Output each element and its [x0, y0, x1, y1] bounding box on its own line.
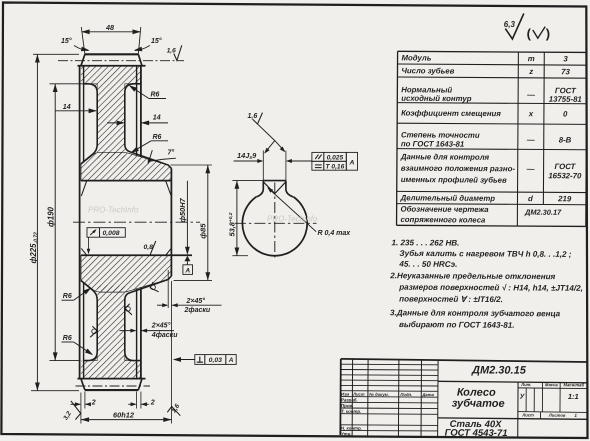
right face line inner lower: [136, 289, 138, 379]
svg-text:ф190: ф190: [46, 206, 55, 227]
svg-text:№ докум.: № докум.: [369, 392, 389, 397]
left face line: [79, 66, 81, 379]
svg-text:зубчатое: зубчатое: [452, 398, 505, 410]
svg-text:14Js9: 14Js9: [237, 151, 257, 161]
svg-text:Обозначение чертежа: Обозначение чертежа: [401, 205, 490, 215]
svg-text:8-В: 8-В: [559, 135, 572, 144]
web recess whiteout bottom-left: [80, 280, 98, 361]
svg-text:2×45°: 2×45°: [186, 297, 206, 305]
svg-text:А: А: [184, 268, 190, 275]
svg-text:Листов: Листов: [548, 413, 566, 418]
svg-text:48: 48: [105, 23, 114, 32]
svg-text:Коэффициент смещения: Коэффициент смещения: [401, 109, 501, 119]
svg-text:2фаски: 2фаски: [184, 307, 211, 314]
svg-text:сопряженного колеса: сопряженного колеса: [400, 215, 486, 225]
svg-text:Пров.: Пров.: [341, 403, 353, 408]
svg-text:ф50Н7: ф50Н7: [178, 197, 187, 222]
left face chamfer line lower: [83, 283, 85, 379]
svg-text:именных профилей зубьев: именных профилей зубьев: [401, 175, 507, 185]
svg-text:Н. контр.: Н. контр.: [341, 426, 362, 431]
svg-text:PRO-TechInfo: PRO-TechInfo: [267, 215, 318, 224]
svg-text:Число зубьев: Число зубьев: [401, 66, 454, 75]
svg-text:ф85: ф85: [198, 223, 207, 239]
svg-text:Модуль: Модуль: [401, 53, 431, 62]
left face chamfer line upper: [83, 66, 85, 162]
svg-text:размеров поверхностей √ : Н14,: размеров поверхностей √ : Н14, h14, ±JТ1…: [398, 283, 583, 293]
svg-text:6,3: 6,3: [504, 20, 516, 29]
dim 53,8: [232, 180, 263, 182]
hub right face: [170, 168, 172, 276]
svg-text:ф225-0,72: ф225-0,72: [29, 232, 40, 264]
svg-text:поверхностей ∀ : ±IТ16/2.: поверхностей ∀ : ±IТ16/2.: [399, 294, 503, 304]
roughness 3,2 rotated left: [71, 401, 81, 420]
svg-text:2: 2: [150, 400, 155, 407]
svg-text:1,6: 1,6: [171, 403, 182, 415]
svg-text:—: —: [526, 90, 535, 99]
svg-text:Лист: Лист: [521, 413, 534, 418]
svg-text:2: 2: [91, 400, 96, 407]
svg-text:Подп.: Подп.: [400, 392, 412, 397]
chamfer extension slants above teeth: [81, 27, 85, 54]
title block outer: [341, 359, 588, 362]
gear section: hatched web top: [97, 84, 125, 159]
svg-text:Изм: Изм: [341, 392, 350, 397]
roughness 1,6 rotated right: [167, 407, 180, 416]
runout tolerance frame 0,008: [87, 228, 125, 238]
svg-text:7°: 7°: [168, 149, 175, 157]
web recess whiteout top-right: [125, 84, 142, 155]
svg-text:исходный контур: исходный контур: [401, 94, 472, 103]
svg-text:R6: R6: [63, 335, 72, 342]
dim dia225: [33, 53, 79, 55]
svg-text:—: —: [526, 135, 535, 144]
right face line outer lower: [140, 287, 142, 378]
svg-text:выбирают по ГОСТ 1643-81.: выбирают по ГОСТ 1643-81.: [399, 320, 515, 330]
svg-text:ДМ2.30.17: ДМ2.30.17: [524, 208, 562, 217]
svg-text:ГОСТ 4543-71: ГОСТ 4543-71: [445, 428, 508, 439]
svg-text:15°: 15°: [61, 37, 72, 45]
gear axis centerline: [73, 221, 200, 223]
svg-text:2×45°: 2×45°: [151, 322, 171, 330]
svg-text:Масса: Масса: [545, 382, 559, 387]
web recess whiteout top-left: [80, 84, 98, 165]
svg-text:Масштаб: Масштаб: [564, 382, 585, 387]
svg-text:Лит.: Лит.: [520, 382, 531, 387]
svg-text:45. . . 50 НRСэ.: 45. . . 50 НRСэ.: [398, 260, 457, 269]
web recess whiteout bottom-right: [125, 289, 142, 360]
svg-text:Т. контр.: Т. контр.: [341, 409, 361, 414]
svg-text:Утв.: Утв.: [341, 431, 352, 436]
svg-text:73: 73: [561, 67, 570, 76]
svg-text:R6: R6: [63, 293, 72, 300]
gear section: hatched hub bottom: [81, 255, 171, 292]
pitch line top (dash-dot): [58, 60, 184, 62]
recess top contour left: [81, 84, 97, 164]
bore top edge (keyway bottom): [81, 180, 171, 182]
recess top contour right + hub top slant: [125, 84, 172, 169]
svg-text:по ГОСТ 1643-81: по ГОСТ 1643-81: [401, 139, 464, 148]
svg-text:R 0,4 max: R 0,4 max: [318, 230, 352, 237]
teeth band top outline: [85, 53, 138, 55]
hub chamfer edge ext line: [167, 270, 169, 308]
svg-text:2.Неуказанные предельные откло: 2.Неуказанные предельные отклонения: [389, 271, 555, 281]
svg-text:Делительный диаметр: Делительный диаметр: [400, 193, 496, 203]
svg-text:Разраб.: Разраб.: [341, 397, 358, 402]
svg-text:4фаски: 4фаски: [151, 332, 178, 339]
svg-text:x: x: [528, 109, 534, 118]
detail centerlines: [235, 222, 317, 224]
svg-text:3.Данные для контроля зубчатог: 3.Данные для контроля зубчатого венца: [390, 308, 561, 318]
dim 48 top: [81, 31, 140, 33]
svg-text:0,025: 0,025: [327, 155, 344, 162]
recess bottom contour left: [81, 281, 97, 361]
perpendicularity frame 0,03 A: [195, 355, 236, 365]
gear section: hatched rim bottom: [81, 361, 142, 379]
svg-text:60h12: 60h12: [113, 410, 135, 419]
svg-text:): ): [546, 26, 550, 41]
svg-text:53,8+0,2: 53,8+0,2: [227, 212, 236, 236]
teeth band bottom outline: [85, 389, 138, 391]
svg-text:0,03: 0,03: [209, 357, 222, 364]
svg-text:13755-81: 13755-81: [549, 95, 582, 104]
svg-text:m: m: [528, 54, 535, 63]
pitch line bottom (dash-dot): [76, 385, 151, 387]
gear section: hatched web bottom: [97, 286, 125, 361]
svg-text:1. 235 . . . 262 НВ.: 1. 235 . . . 262 НВ.: [391, 238, 459, 247]
recess bottom contour right + hub bottom slant: [125, 276, 172, 361]
detail view: bore circle: [242, 197, 307, 256]
tolerance frame parallel/symmetry: [312, 152, 346, 170]
svg-text:Лист: Лист: [352, 392, 365, 397]
svg-text:PRO-TechInfo: PRO-TechInfo: [88, 206, 139, 215]
title block right section: [438, 381, 587, 383]
svg-text:14: 14: [63, 104, 71, 111]
svg-text:0: 0: [563, 110, 568, 119]
right face line inner upper: [136, 66, 138, 156]
dia50H7 leader with datum A: [186, 181, 188, 254]
svg-text:(: (: [527, 26, 532, 41]
svg-text:1,6: 1,6: [167, 47, 176, 54]
ext line 60h12 left: [80, 393, 82, 424]
svg-text:взаимного положения разно-: взаимного положения разно-: [401, 164, 516, 174]
gear section: hatched hub top: [81, 152, 171, 180]
svg-text:d: d: [528, 194, 533, 203]
svg-text:1,6: 1,6: [248, 113, 258, 120]
svg-text:1:1: 1:1: [568, 392, 579, 401]
gear section: hatched rim top: [81, 66, 142, 84]
dim dia190: [50, 83, 84, 85]
svg-text:ГОСТ: ГОСТ: [554, 162, 576, 171]
svg-text:Степень точности: Степень точности: [401, 130, 480, 139]
keyway slot with mouth fillets: [256, 181, 263, 197]
svg-text:z: z: [528, 67, 533, 76]
keyway corner V lines: [264, 182, 275, 193]
svg-text:R6: R6: [153, 134, 162, 141]
dim 14Js9 keyway: [262, 151, 264, 181]
svg-text:R6: R6: [151, 92, 160, 99]
svg-text:—: —: [526, 164, 535, 173]
svg-text:14: 14: [153, 115, 161, 122]
gear parameter table: [398, 51, 587, 52]
svg-text:Дата: Дата: [421, 392, 434, 397]
surface mark flag 1 (hub bottom slant): [149, 281, 159, 294]
svg-text:3,2: 3,2: [62, 410, 73, 422]
title block left grid: [341, 363, 438, 366]
ext lines small 2 dims: [84, 392, 86, 409]
svg-text:0,008: 0,008: [103, 230, 120, 237]
svg-text:219: 219: [557, 194, 572, 203]
bore chamfer diagonals: [81, 181, 87, 196]
dim 60h12: [81, 419, 172, 421]
bore bottom edge: [81, 254, 192, 256]
R0,4max leader: [268, 188, 316, 232]
fillet fills top web: [88, 84, 97, 93]
right face line outer upper: [140, 66, 142, 157]
svg-text:16532-70: 16532-70: [548, 171, 582, 180]
svg-text:ДМ2.30.15: ДМ2.30.15: [471, 364, 527, 376]
svg-text:У: У: [520, 393, 526, 400]
svg-text:А: А: [348, 160, 354, 167]
svg-text:Данные для контроля: Данные для контроля: [400, 152, 490, 162]
svg-text:Т 0,16: Т 0,16: [326, 164, 345, 171]
surface mark flag 2 (web right wall): [125, 304, 132, 315]
svg-text:1: 1: [574, 413, 577, 418]
svg-text:15°: 15°: [151, 37, 162, 45]
svg-text:Зубья калить с нагревом ТВЧ h: Зубья калить с нагревом ТВЧ h 0,8. . .1,…: [399, 249, 571, 259]
svg-text:А: А: [228, 357, 234, 364]
dim dia85 hub: [171, 164, 213, 166]
surface mark flag 3 (web left wall): [90, 326, 97, 337]
ext line 60h12 right: [171, 281, 173, 424]
svg-text:3: 3: [563, 54, 568, 63]
